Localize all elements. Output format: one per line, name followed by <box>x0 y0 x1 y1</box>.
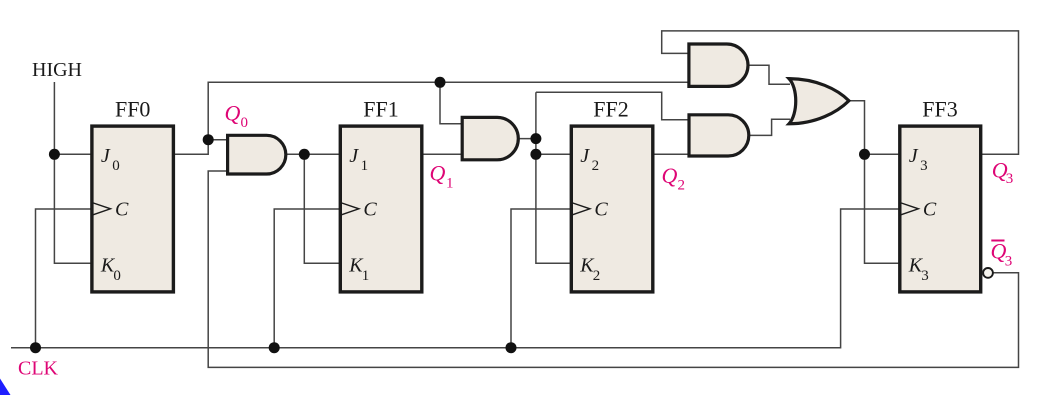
svg-text:J: J <box>909 145 919 167</box>
svg-text:Q: Q <box>662 163 678 188</box>
svg-text:1: 1 <box>361 158 369 174</box>
svg-text:J: J <box>349 145 359 167</box>
svg-text:C: C <box>594 199 608 221</box>
svg-text:FF1: FF1 <box>363 97 398 122</box>
svg-text:3: 3 <box>1006 171 1014 187</box>
svg-text:FF0: FF0 <box>115 97 150 122</box>
svg-text:2: 2 <box>593 268 601 284</box>
svg-text:1: 1 <box>362 268 370 284</box>
svg-text:C: C <box>115 199 129 221</box>
svg-text:CLK: CLK <box>18 358 59 380</box>
svg-text:Q: Q <box>225 100 241 125</box>
svg-text:2: 2 <box>592 158 600 174</box>
svg-text:3: 3 <box>921 268 929 284</box>
svg-text:3: 3 <box>920 158 928 174</box>
svg-text:C: C <box>363 199 377 221</box>
svg-text:Q: Q <box>430 161 446 186</box>
svg-text:3: 3 <box>1005 253 1013 269</box>
svg-text:C: C <box>923 199 937 221</box>
svg-text:1: 1 <box>446 175 454 191</box>
svg-text:2: 2 <box>678 178 686 194</box>
svg-text:0: 0 <box>241 115 249 131</box>
svg-text:J: J <box>101 145 111 167</box>
svg-text:FF3: FF3 <box>922 97 957 122</box>
svg-text:0: 0 <box>112 158 120 174</box>
svg-text:HIGH: HIGH <box>32 59 82 81</box>
svg-text:J: J <box>580 145 590 167</box>
svg-text:FF2: FF2 <box>593 97 628 122</box>
svg-text:0: 0 <box>113 268 121 284</box>
